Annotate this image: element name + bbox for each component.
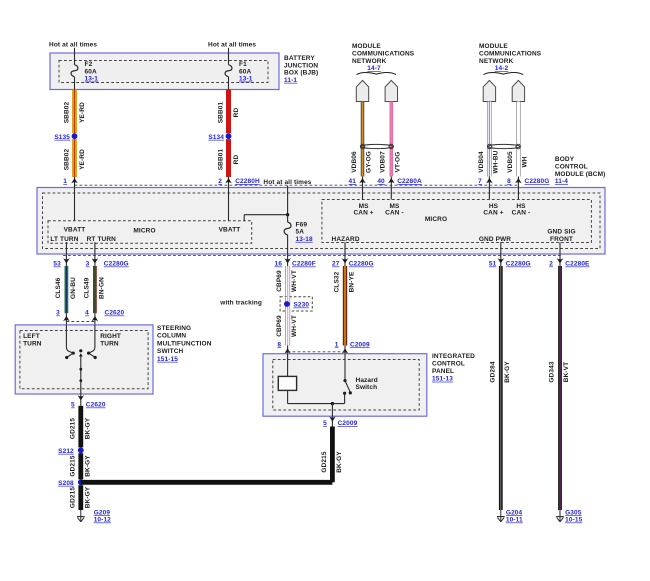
svg-text:G305: G305: [565, 509, 582, 516]
wire below fuse F1: [228, 77, 230, 90]
svg-text:C2280G: C2280G: [506, 261, 531, 268]
svg-text:STEERING: STEERING: [157, 325, 191, 332]
svg-text:41: 41: [349, 178, 357, 185]
pin 5 C2620: [71, 394, 106, 409]
Hazard Switch label: [356, 377, 378, 391]
MS CAN - label: [385, 203, 404, 217]
ground G305: [556, 509, 582, 523]
svg-text:CBP69: CBP69: [276, 270, 283, 292]
wire pin8 to micro: [517, 188, 519, 200]
svg-text:14-2: 14-2: [495, 65, 509, 72]
pin 27 C2280G: [332, 254, 374, 267]
svg-text:S208: S208: [58, 480, 74, 487]
svg-text:Hot at all times: Hot at all times: [208, 42, 256, 49]
svg-text:BK-GY: BK-GY: [85, 486, 92, 508]
wire CLS49 BN-GN: [84, 266, 106, 313]
wire pin 8 to hazard indicator: [287, 354, 289, 377]
svg-text:8: 8: [507, 178, 511, 185]
wire below fuse F2: [74, 77, 76, 90]
svg-text:151-15: 151-15: [157, 356, 178, 363]
GND SIG FRONT label: [547, 229, 575, 243]
wire GD215 BK-GY segment 1: [69, 406, 91, 448]
MS CAN connector right: [385, 80, 397, 101]
svg-text:RT TURN: RT TURN: [87, 236, 117, 243]
svg-text:BK-GY: BK-GY: [336, 451, 343, 473]
wire GD215 BK-GY vertical to ICP: [321, 427, 343, 483]
ground G204: [497, 509, 523, 523]
svg-text:14-7: 14-7: [367, 65, 381, 72]
fuse F69: [284, 222, 313, 243]
svg-text:VDB04: VDB04: [478, 151, 485, 173]
MS CAN brace: [357, 73, 397, 75]
svg-text:BK-VT: BK-VT: [563, 362, 570, 382]
svg-text:HAZARD: HAZARD: [332, 236, 360, 243]
svg-text:60A: 60A: [85, 68, 97, 75]
battery junction box (BJB) outline: [50, 53, 279, 90]
svg-text:with tracking: with tracking: [219, 299, 262, 306]
wire right turn contact: [87, 325, 95, 355]
ICP label: [432, 353, 475, 383]
HS CAN network label: [479, 43, 542, 72]
wire into fuse F2: [74, 48, 76, 65]
svg-text:C2280G: C2280G: [525, 178, 550, 185]
wire GD215 BK-GY segment 3: [69, 485, 91, 510]
wire pin 1 to hazard switch: [344, 354, 346, 381]
svg-text:YE-RD: YE-RD: [79, 149, 86, 170]
left turn blade: [65, 353, 73, 359]
MS CAN + label: [353, 203, 373, 217]
svg-text:27: 27: [332, 261, 340, 268]
BCM outer dashed box: [43, 193, 601, 249]
svg-text:51: 51: [489, 261, 497, 268]
svg-text:151-13: 151-13: [432, 376, 453, 383]
svg-text:1: 1: [63, 178, 67, 185]
wire junction to pin 5 C2009: [323, 404, 357, 427]
BJB label: [284, 55, 318, 84]
svg-text:FRONT: FRONT: [550, 236, 573, 243]
svg-text:C2280G: C2280G: [104, 261, 129, 268]
svg-text:CONTROL: CONTROL: [555, 164, 588, 171]
splice S230: [284, 301, 309, 308]
svg-text:G204: G204: [506, 509, 523, 516]
svg-text:7: 7: [478, 178, 482, 185]
svg-text:SBB01: SBB01: [217, 101, 224, 123]
wire SBB01 RD lower segment: [217, 139, 240, 177]
pin 1 C2009: [335, 341, 370, 353]
svg-text:YE-RD: YE-RD: [79, 102, 86, 123]
svg-text:MICRO: MICRO: [425, 216, 447, 223]
svg-text:MODULE (BCM): MODULE (BCM): [555, 171, 606, 178]
svg-text:RD: RD: [233, 155, 240, 165]
svg-text:GY-OG: GY-OG: [366, 151, 373, 173]
HS CAN - label: [512, 203, 531, 217]
svg-text:BOX (BJB): BOX (BJB): [284, 70, 318, 77]
svg-text:TURN: TURN: [23, 341, 42, 348]
svg-text:BK-GY: BK-GY: [85, 417, 92, 439]
switch inner dashed box: [20, 331, 148, 389]
MS CAN twisted pair loop: [361, 144, 393, 148]
svg-text:16: 16: [275, 261, 283, 268]
svg-text:G209: G209: [94, 509, 111, 516]
svg-text:MODULE: MODULE: [352, 43, 381, 50]
svg-text:10-15: 10-15: [565, 517, 582, 524]
svg-text:GD215: GD215: [69, 487, 76, 508]
svg-text:5: 5: [71, 402, 75, 409]
BCM micro box right: [322, 200, 592, 243]
switch common pole: [79, 349, 83, 394]
wire SBB02 YE-RD upper segment: [63, 90, 86, 134]
MS CAN connector left: [356, 80, 368, 101]
svg-text:S230: S230: [293, 302, 309, 309]
svg-text:11-4: 11-4: [555, 178, 568, 185]
svg-text:1: 1: [335, 341, 339, 348]
svg-text:CLS46: CLS46: [55, 277, 62, 298]
svg-text:13-18: 13-18: [296, 236, 313, 243]
fuse F1: [225, 61, 253, 82]
svg-text:Switch: Switch: [356, 384, 378, 391]
svg-text:LEFT: LEFT: [23, 333, 40, 340]
svg-text:BATTERY: BATTERY: [284, 55, 315, 62]
svg-text:CAN +: CAN +: [483, 210, 503, 217]
svg-text:MICRO: MICRO: [133, 228, 155, 235]
svg-text:F69: F69: [296, 222, 308, 229]
svg-text:F2: F2: [85, 61, 93, 68]
wire LT TURN to pin 53: [65, 242, 67, 254]
splice S230 dashed box: [280, 297, 312, 311]
pin 3 C2620: [56, 310, 70, 325]
svg-text:VBATT: VBATT: [219, 227, 241, 234]
svg-text:CAN -: CAN -: [512, 210, 531, 217]
svg-text:INTEGRATED: INTEGRATED: [432, 353, 475, 360]
wire junction to fuse F69: [287, 215, 289, 222]
svg-text:CLS49: CLS49: [84, 277, 91, 298]
wire CBP69 WH-VT lower segment: [276, 311, 298, 346]
svg-text:GD215: GD215: [69, 455, 76, 476]
wire pin2 to VBATT: [228, 188, 230, 221]
svg-text:WH-BU: WH-BU: [493, 150, 500, 173]
wire VDB05 WH: [507, 102, 529, 177]
wire pin41 to micro: [362, 188, 364, 200]
svg-text:MULTIFUNCTION: MULTIFUNCTION: [157, 340, 212, 347]
hazard switch: [343, 379, 352, 404]
junction to VBATT branch: [244, 213, 289, 221]
svg-text:C2280H: C2280H: [235, 178, 260, 185]
pin 51 C2280G: [489, 254, 531, 267]
BCM micro box left: [48, 221, 252, 244]
svg-text:C2620: C2620: [105, 310, 125, 317]
splice S212: [58, 447, 84, 454]
body control module (BCM) outline: [37, 188, 605, 255]
wire CBP69 through S230: [285, 297, 289, 311]
pin 8 C2280G: [507, 177, 549, 188]
pin 40 C2280A: [377, 177, 422, 188]
right turn blade: [89, 353, 97, 359]
svg-text:CAN +: CAN +: [353, 210, 373, 217]
svg-text:VDB05: VDB05: [507, 151, 514, 173]
wire SBB01 RD upper segment: [217, 90, 240, 134]
svg-text:Hazard: Hazard: [356, 377, 378, 384]
wire RT TURN to pin 3: [94, 242, 96, 254]
svg-text:SBB02: SBB02: [63, 101, 70, 123]
svg-text:40: 40: [377, 178, 385, 185]
svg-text:4: 4: [85, 310, 89, 317]
svg-text:GD284: GD284: [489, 361, 496, 382]
wire hot at all times into BCM: [287, 186, 289, 215]
HS CAN + label: [483, 203, 503, 217]
svg-text:GND PWR: GND PWR: [479, 236, 511, 243]
LEFT TURN label: [23, 333, 42, 348]
wire CBP69 WH-VT upper segment: [276, 266, 298, 297]
svg-text:13-1: 13-1: [85, 76, 99, 83]
svg-text:BN-YE: BN-YE: [349, 271, 356, 292]
integrated control panel outline: [263, 354, 427, 417]
svg-text:GD215: GD215: [321, 451, 328, 472]
wire VDB06 GY-OG: [351, 102, 373, 177]
svg-text:S135: S135: [54, 134, 70, 141]
pin 2 C2280E: [549, 254, 590, 267]
svg-text:BK-GY: BK-GY: [504, 361, 511, 383]
wire GND SIG FRONT to pin 2: [559, 242, 561, 254]
BJB inner dashed box: [59, 61, 268, 83]
svg-text:VDB07: VDB07: [380, 151, 387, 173]
pin 4 C2620: [85, 310, 124, 325]
pin 7 C2280G: [478, 177, 493, 188]
wire CLS32 BN-YE: [333, 266, 355, 346]
svg-text:SBB02: SBB02: [63, 148, 70, 170]
svg-text:3: 3: [56, 310, 60, 317]
svg-text:GD343: GD343: [549, 361, 556, 382]
pin 8 C2009: [277, 341, 291, 353]
svg-text:C2280G: C2280G: [349, 261, 374, 268]
wire fuse F69 to pin 16: [287, 235, 289, 254]
svg-text:COLUMN: COLUMN: [157, 333, 186, 340]
C2620 connector dashed line: [66, 321, 95, 323]
svg-text:GND SIG: GND SIG: [547, 229, 575, 236]
wire GD215 horizontal run: [81, 480, 333, 485]
svg-text:S134: S134: [208, 134, 224, 141]
wire indicator to common: [288, 390, 345, 403]
svg-text:LT TURN: LT TURN: [50, 236, 78, 243]
svg-text:BK-GY: BK-GY: [85, 455, 92, 477]
pin 41 C2280A: [349, 177, 366, 188]
svg-text:WH: WH: [522, 156, 529, 167]
svg-text:10-12: 10-12: [94, 517, 111, 524]
svg-text:F1: F1: [239, 61, 247, 68]
svg-text:MODULE: MODULE: [479, 43, 508, 50]
svg-text:S212: S212: [58, 448, 74, 455]
svg-text:5A: 5A: [296, 229, 305, 236]
ICP inner dashed box: [273, 360, 419, 411]
svg-text:GN-BU: GN-BU: [70, 277, 77, 299]
steering column multifunction switch outline: [15, 325, 153, 394]
svg-text:VDB06: VDB06: [351, 151, 358, 173]
svg-text:Hot at all times: Hot at all times: [49, 42, 97, 49]
C2009 connector dashed line: [288, 351, 345, 353]
svg-text:RIGHT: RIGHT: [100, 333, 121, 340]
svg-text:C2280E: C2280E: [565, 261, 590, 268]
wire pin40 to micro: [390, 188, 392, 200]
BCM bottom connector dashed line: [63, 254, 563, 256]
svg-text:PANEL: PANEL: [432, 368, 454, 375]
pin 16 C2280F: [275, 254, 316, 267]
wire CLS46 GN-BU: [55, 266, 77, 313]
wire VDB04 WH-BU: [478, 102, 500, 177]
pin 1 C2280H: [63, 177, 78, 188]
svg-text:WH-VT: WH-VT: [291, 315, 298, 337]
HS CAN twisted pair loop: [488, 144, 520, 148]
wire VDB07 VT-OG: [380, 102, 402, 177]
svg-text:11-1: 11-1: [284, 77, 297, 84]
svg-text:C2280F: C2280F: [292, 261, 316, 268]
RIGHT TURN label: [100, 333, 121, 348]
MS CAN network label: [352, 43, 415, 72]
wire left turn contact: [66, 325, 74, 355]
hazard indicator lamp: [278, 376, 296, 390]
HS CAN connector left: [483, 80, 495, 101]
svg-text:VBATT: VBATT: [64, 227, 86, 234]
svg-text:GD215: GD215: [69, 418, 76, 439]
svg-text:TURN: TURN: [100, 341, 119, 348]
svg-text:2: 2: [218, 178, 222, 185]
splice S208: [58, 479, 84, 486]
wire HAZARD to pin 27: [344, 242, 346, 254]
svg-text:BN-GN: BN-GN: [99, 277, 106, 299]
wire GD284 BK-GY: [489, 266, 511, 510]
HS CAN connector right: [512, 80, 524, 101]
svg-text:2: 2: [549, 261, 553, 268]
svg-text:COMMUNICATIONS: COMMUNICATIONS: [352, 51, 415, 58]
wire GD215 BK-GY segment 2: [69, 453, 91, 479]
pin 3 C2280G: [86, 254, 129, 267]
svg-text:JUNCTION: JUNCTION: [284, 62, 318, 69]
svg-text:SWITCH: SWITCH: [157, 348, 184, 355]
svg-text:NETWORK: NETWORK: [352, 58, 387, 65]
wire pin7 to micro: [488, 188, 490, 200]
junction to pin 5: [331, 402, 334, 405]
svg-text:WH-VT: WH-VT: [291, 270, 298, 292]
splice S135: [54, 133, 77, 141]
pin 2 C2280H: [218, 177, 260, 188]
wire SBB02 YE-RD lower segment: [63, 139, 86, 177]
BCM top connector dashed line: [75, 184, 519, 186]
svg-text:BODY: BODY: [555, 156, 575, 163]
svg-text:C2009: C2009: [350, 341, 370, 348]
svg-text:C2280A: C2280A: [397, 178, 422, 185]
fuse F2: [71, 61, 98, 82]
ground G209: [77, 509, 111, 523]
HS CAN brace: [484, 73, 524, 75]
svg-text:VT-OG: VT-OG: [395, 152, 402, 173]
svg-text:10-11: 10-11: [506, 517, 523, 524]
svg-text:CBP69: CBP69: [276, 315, 283, 337]
svg-text:8: 8: [277, 341, 281, 348]
svg-text:3: 3: [86, 261, 90, 268]
svg-text:CONTROL: CONTROL: [432, 361, 465, 368]
svg-text:CLS32: CLS32: [333, 271, 340, 292]
wire GD343 BK-VT: [549, 266, 571, 510]
splice S134: [208, 133, 231, 141]
pin 53 C2280G: [53, 254, 69, 267]
svg-text:NETWORK: NETWORK: [479, 58, 514, 65]
svg-text:13-1: 13-1: [239, 76, 253, 83]
svg-text:60A: 60A: [239, 68, 251, 75]
wire GND PWR to pin 51: [500, 242, 502, 254]
svg-text:C2009: C2009: [338, 420, 358, 427]
wire pin1 to VBATT: [74, 188, 76, 221]
svg-text:Hot at all times: Hot at all times: [263, 179, 311, 186]
svg-text:C2620: C2620: [86, 402, 106, 409]
switch label: [157, 325, 212, 363]
svg-text:RD: RD: [233, 108, 240, 118]
svg-text:53: 53: [53, 261, 61, 268]
BCM label: [555, 156, 606, 185]
wire into fuse F1: [228, 48, 230, 65]
svg-text:SBB01: SBB01: [217, 148, 224, 170]
svg-text:CAN -: CAN -: [385, 210, 404, 217]
svg-text:COMMUNICATIONS: COMMUNICATIONS: [479, 51, 542, 58]
svg-text:5: 5: [323, 420, 327, 427]
